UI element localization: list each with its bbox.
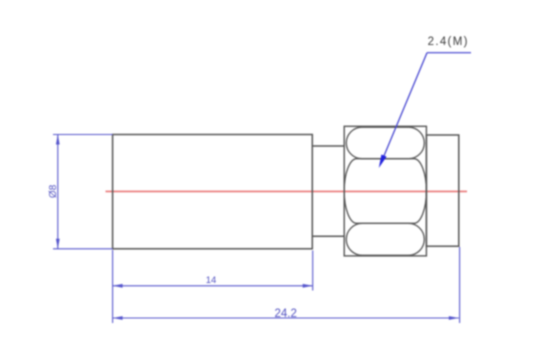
dia8 dimension line [57, 135, 59, 249]
leader diagonal line [381, 53, 427, 163]
hex nut outer rectangle [344, 126, 426, 256]
extension line left (shared 14 / 24.2) [112, 250, 114, 323]
connector body rectangle [113, 135, 313, 249]
extension line right for 24.2 [459, 247, 461, 323]
hex nut bottom face [346, 223, 424, 255]
leader arrowhead [379, 155, 387, 169]
dia8 arrow up [56, 135, 60, 145]
dia8 extension line bottom [53, 248, 113, 250]
24.2 arrow right [449, 316, 459, 320]
dia8 arrow down [56, 239, 60, 249]
red centerline [106, 190, 468, 192]
hex nut top face [346, 127, 424, 159]
svg-text:Ø8: Ø8 [48, 184, 59, 198]
14 dimension line [113, 285, 313, 287]
svg-text:24.2: 24.2 [275, 308, 297, 320]
24.2 arrow left [113, 316, 123, 320]
neck section bottom line [312, 235, 344, 237]
14 arrow left [113, 284, 123, 288]
svg-text:14: 14 [206, 275, 217, 286]
14 arrow right [303, 284, 313, 288]
neck section top line [312, 145, 344, 147]
hex nut middle face [344, 159, 426, 224]
extension line middle for 14 [312, 251, 314, 291]
interface section rectangle [426, 135, 458, 246]
dia8 extension line top [53, 134, 113, 136]
24.2 dimension line [113, 317, 459, 319]
svg-text:2.4(M): 2.4(M) [428, 36, 469, 48]
leader horizontal line [427, 52, 471, 54]
